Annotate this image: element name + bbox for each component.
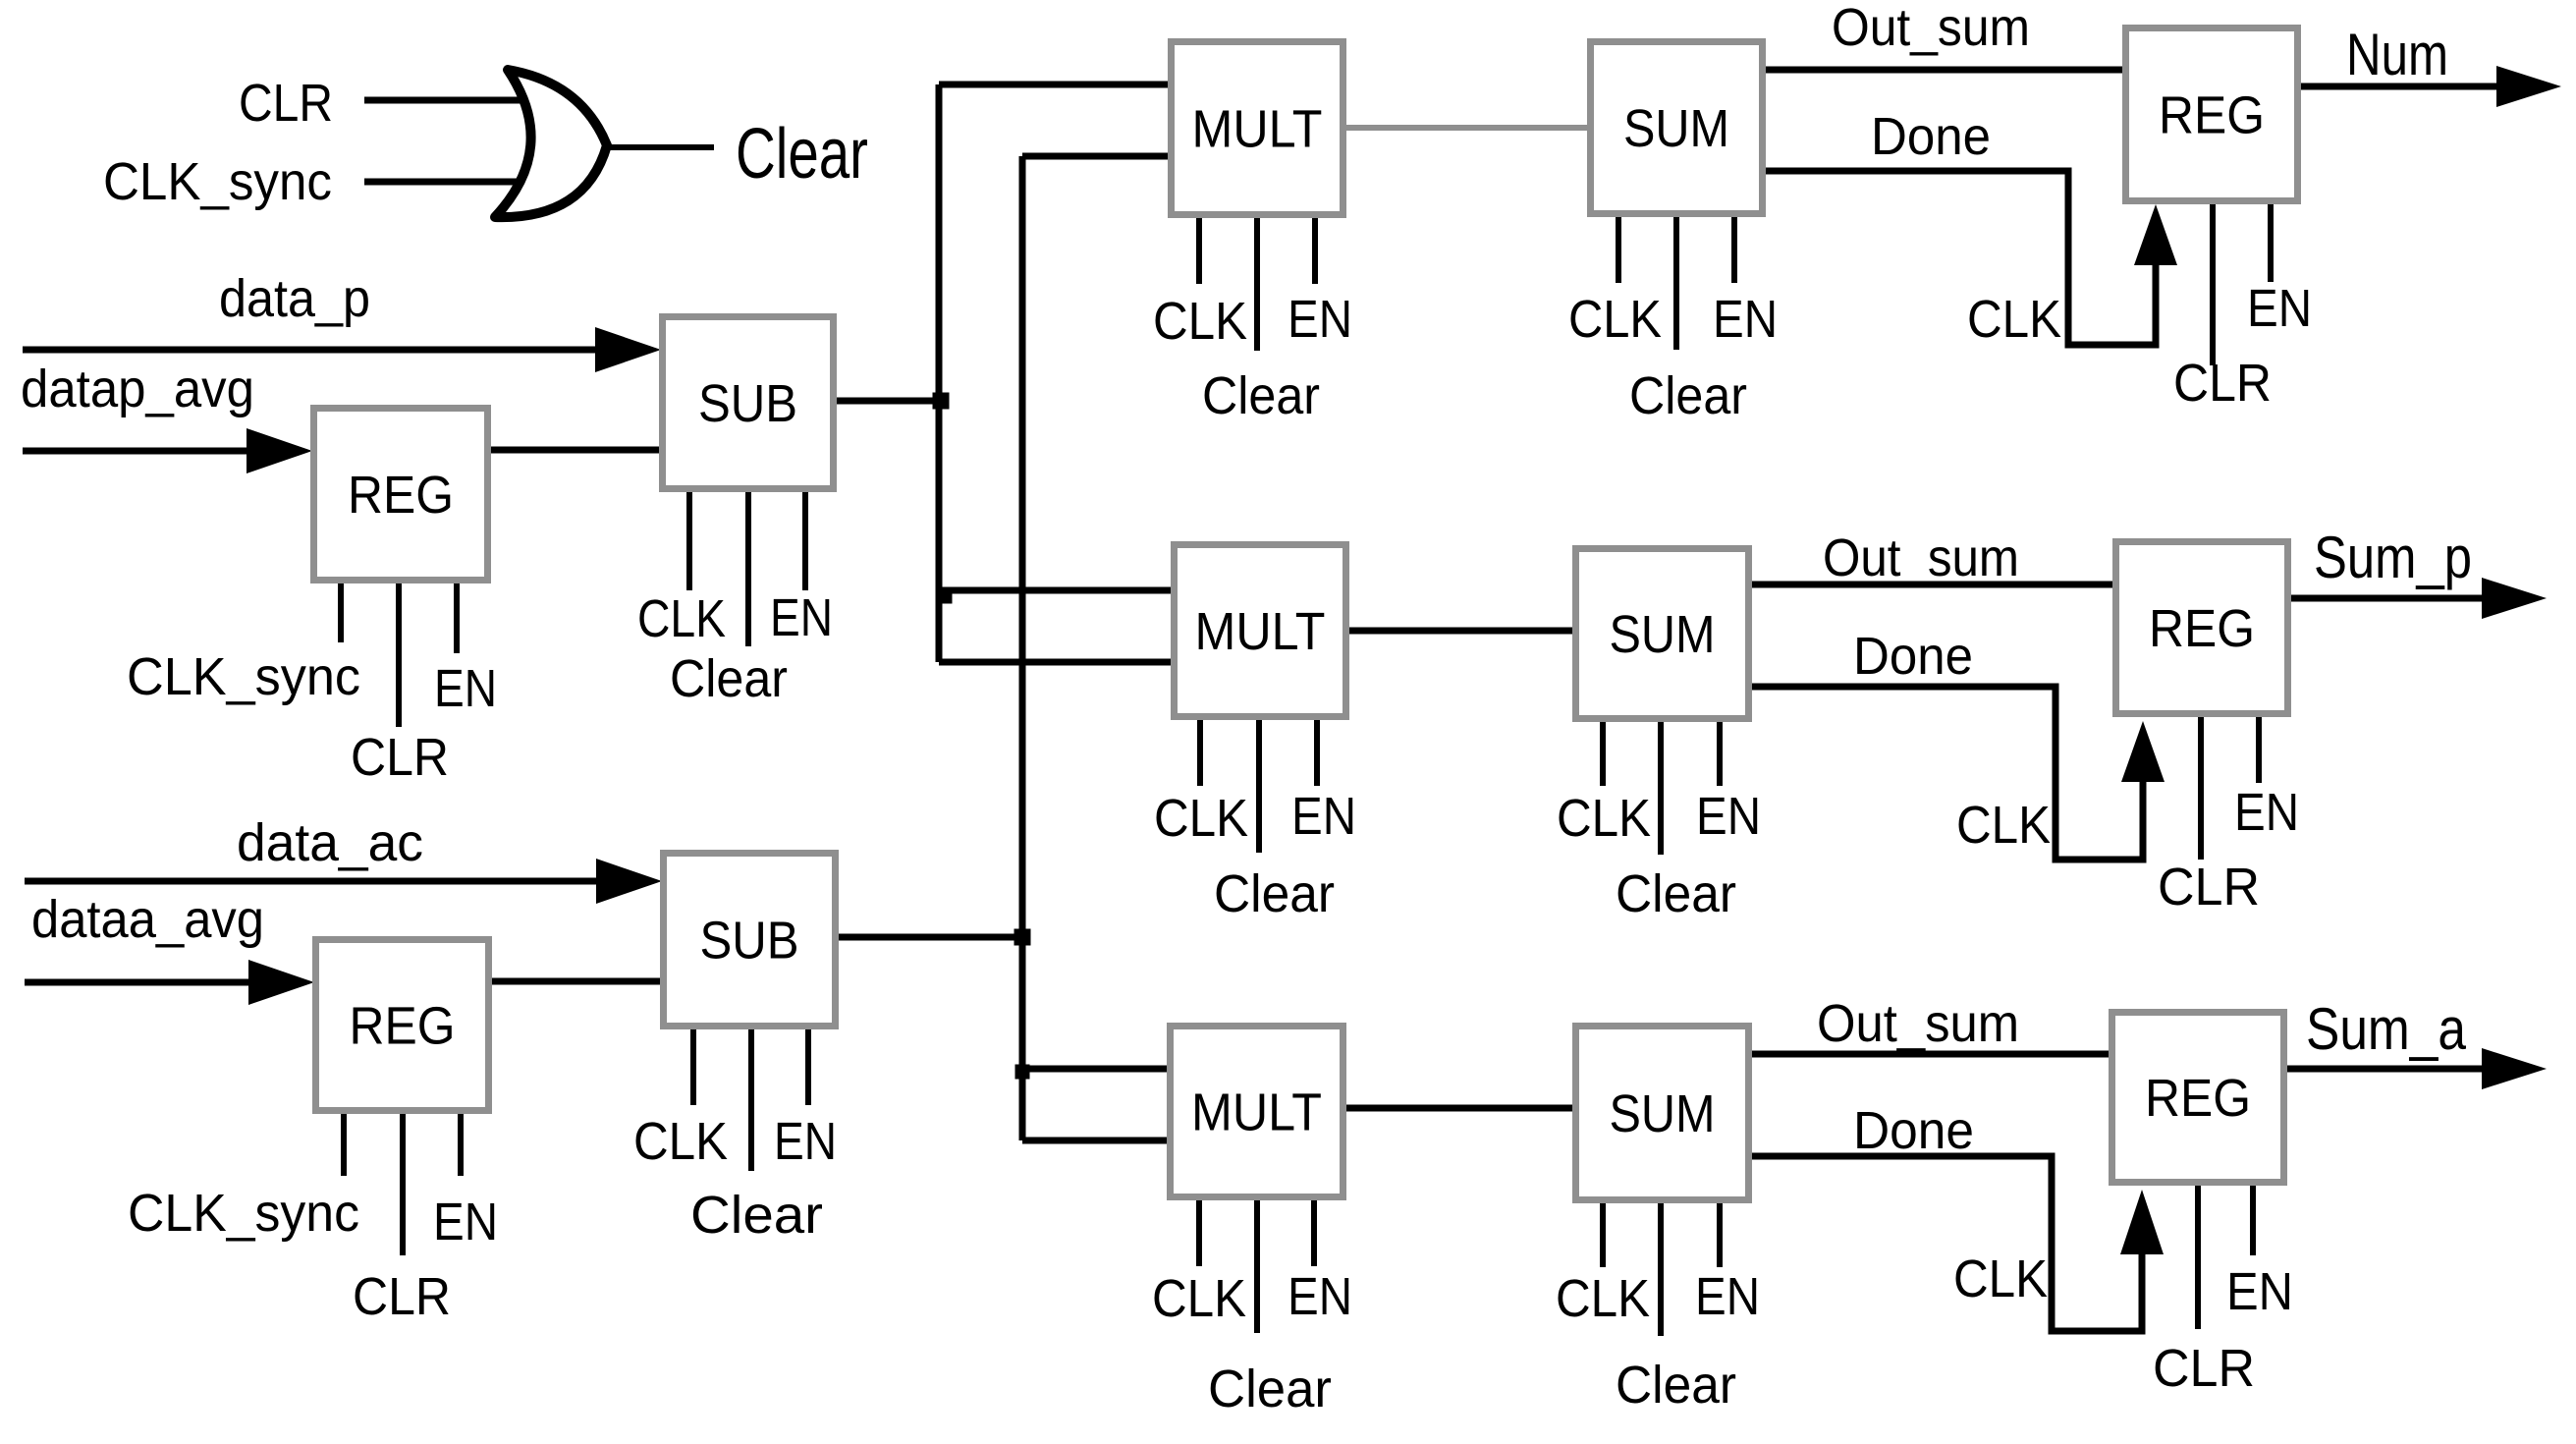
svg-text:Clear: Clear: [690, 1186, 823, 1245]
wire MULT3 to SUM3: [1346, 1105, 1572, 1112]
svg-text:Out_sum: Out_sum: [1823, 528, 2019, 587]
svg-text:REG: REG: [2149, 599, 2255, 658]
OR gate U1: [495, 70, 607, 217]
pin Clear of SUM3: [1658, 1203, 1664, 1336]
svg-text:CLK: CLK: [1956, 796, 2051, 855]
svg-text:CLK_sync: CLK_sync: [128, 1184, 359, 1243]
wire SUB1 output: [837, 398, 939, 405]
pin CLR of REG2: [2198, 717, 2204, 860]
wire Done row3 to REG3 clock: [1752, 1156, 2164, 1331]
pin CLR of REG1: [2210, 204, 2216, 365]
svg-text:datap_avg: datap_avg: [21, 360, 254, 418]
pin EN of SUM1: [1731, 217, 1737, 283]
register REG1 (Num): [2126, 28, 2298, 201]
pin Clear of MULT1: [1254, 218, 1260, 351]
wire Done row2 to REG2 clock: [1752, 687, 2165, 860]
junction SUB2 output node: [1014, 929, 1031, 946]
svg-text:Clear: Clear: [1214, 864, 1335, 923]
wire CLR input to OR gate: [364, 97, 530, 104]
svg-text:CLK_sync: CLK_sync: [103, 152, 332, 211]
pin EN of REG1: [2268, 204, 2274, 282]
pin EN of SUM2: [1717, 722, 1723, 786]
accumulator SUM1: [1591, 42, 1763, 214]
wire REG to SUB2: [492, 978, 660, 985]
svg-text:MULT: MULT: [1192, 100, 1323, 159]
svg-text:CLK: CLK: [633, 1112, 728, 1171]
svg-text:SUM: SUM: [1610, 605, 1716, 664]
pin Clear of MULT3: [1254, 1200, 1260, 1333]
wire Clear output of OR gate: [607, 144, 714, 150]
pin Clear of SUM1: [1673, 217, 1679, 350]
wire Sum_p output: [2291, 578, 2547, 619]
pin CLK of SUM1: [1616, 217, 1621, 283]
wire dataa_avg input: [25, 960, 314, 1005]
svg-text:CLK: CLK: [1153, 292, 1247, 351]
svg-text:Out_sum: Out_sum: [1817, 994, 2019, 1053]
wire bus from SUB1 (vertical): [936, 84, 943, 662]
svg-text:CLK: CLK: [1967, 290, 2061, 349]
multiplier MULT3: [1171, 1027, 1343, 1197]
svg-text:EN: EN: [1696, 787, 1761, 846]
pin EN of left REG2: [458, 1114, 464, 1176]
wire bus2 to MULT3 bottom input: [1022, 1138, 1167, 1144]
pin Clear of SUB1: [745, 492, 751, 646]
pin CLR of REG3: [2195, 1186, 2201, 1329]
svg-text:CLK: CLK: [1568, 290, 1662, 349]
accumulator SUM2: [1576, 549, 1749, 719]
pin EN of MULT1: [1312, 218, 1318, 284]
subtractor SUB2: [664, 854, 836, 1027]
svg-text:Done: Done: [1871, 107, 1991, 166]
pin Clear of MULT2: [1256, 720, 1262, 853]
multiplier MULT2: [1175, 545, 1346, 717]
svg-text:EN: EN: [434, 659, 497, 718]
svg-text:CLR: CLR: [2158, 858, 2260, 916]
svg-text:EN: EN: [2247, 279, 2312, 338]
svg-text:Sum_a: Sum_a: [2306, 996, 2467, 1062]
svg-text:MULT: MULT: [1195, 602, 1326, 661]
pin EN of REG3: [2250, 1186, 2256, 1255]
svg-text:Clear: Clear: [1208, 1360, 1332, 1418]
svg-text:Clear: Clear: [1616, 1356, 1736, 1415]
svg-text:REG: REG: [348, 466, 454, 525]
wire REG to SUB1: [491, 447, 659, 454]
pin CLK of MULT1: [1196, 218, 1202, 284]
pin CLK of SUB1: [686, 492, 692, 590]
pin EN of SUB1: [802, 492, 808, 590]
junction bus1 MULT2 node: [938, 589, 953, 604]
wire bus from SUB2 (vertical): [1019, 156, 1026, 1140]
pin CLK_sync of left REG1: [338, 583, 344, 642]
svg-text:CLR: CLR: [351, 728, 449, 787]
svg-text:Out_sum: Out_sum: [1832, 0, 2030, 57]
svg-text:REG: REG: [2159, 86, 2265, 145]
svg-text:Clear: Clear: [1616, 864, 1736, 923]
wire Done row1 to REG1 clock: [1766, 171, 2177, 345]
svg-text:SUB: SUB: [700, 912, 799, 971]
svg-text:Clear: Clear: [736, 115, 868, 194]
junction SUB1 output node: [933, 393, 950, 410]
svg-text:EN: EN: [1713, 290, 1778, 349]
svg-text:EN: EN: [770, 588, 833, 647]
wire Out_sum row1: [1766, 67, 2122, 74]
svg-text:EN: EN: [1288, 290, 1352, 349]
pin EN of MULT2: [1314, 720, 1320, 786]
svg-text:SUB: SUB: [698, 374, 797, 433]
svg-text:CLR: CLR: [2153, 1339, 2255, 1398]
pin EN of left REG1: [454, 583, 460, 653]
wire Num output: [2301, 66, 2561, 107]
wire Sum_a output: [2287, 1048, 2547, 1089]
pin Clear of SUB2: [748, 1029, 754, 1171]
svg-text:data_p: data_p: [219, 269, 370, 328]
svg-text:CLK_sync: CLK_sync: [127, 647, 360, 706]
pin CLK of SUB2: [690, 1029, 696, 1105]
svg-text:EN: EN: [1288, 1267, 1352, 1326]
pin EN of SUB2: [805, 1029, 811, 1105]
svg-text:EN: EN: [1291, 787, 1356, 846]
pin CLK_sync of left REG2: [341, 1114, 347, 1176]
wire Out_sum row3: [1752, 1051, 2109, 1058]
svg-text:Done: Done: [1853, 627, 1973, 686]
svg-text:EN: EN: [774, 1112, 837, 1171]
multiplier MULT1: [1172, 42, 1343, 215]
wire bus2 to MULT1 bottom input: [1022, 153, 1168, 160]
svg-text:CLK: CLK: [1953, 1250, 2048, 1308]
wire datap_avg input: [23, 428, 312, 473]
wire MULT2 to SUM2: [1349, 628, 1572, 635]
svg-text:dataa_avg: dataa_avg: [31, 890, 264, 949]
svg-text:SUM: SUM: [1610, 1084, 1716, 1143]
register REG2 (Sum_p): [2116, 542, 2288, 714]
svg-text:Done: Done: [1853, 1101, 1974, 1160]
register REG3 (Sum_a): [2112, 1013, 2284, 1183]
register REG (datap_avg): [314, 409, 488, 581]
pin CLK of MULT3: [1196, 1200, 1202, 1266]
pin EN of SUM3: [1717, 1203, 1723, 1267]
svg-text:data_ac: data_ac: [237, 813, 423, 872]
svg-text:EN: EN: [1695, 1267, 1760, 1326]
wire data_ac input: [25, 859, 662, 904]
svg-text:Clear: Clear: [1202, 366, 1320, 425]
svg-text:EN: EN: [2234, 783, 2299, 842]
pin CLR of left REG1: [396, 583, 402, 727]
pin EN of REG2: [2256, 717, 2262, 783]
svg-text:CLR: CLR: [239, 74, 333, 133]
register REG (dataa_avg): [316, 940, 489, 1111]
svg-text:REG: REG: [350, 997, 456, 1056]
wire bus2 to MULT3 top input: [1022, 1066, 1167, 1073]
pin CLK of MULT2: [1197, 720, 1203, 786]
svg-text:Clear: Clear: [1629, 366, 1747, 425]
svg-text:CLR: CLR: [353, 1267, 451, 1326]
svg-text:Sum_p: Sum_p: [2314, 525, 2472, 590]
wire CLK_sync input to OR gate: [364, 179, 524, 186]
wire data_p input: [23, 327, 661, 372]
svg-text:MULT: MULT: [1191, 1083, 1322, 1142]
wire bus1 to MULT1 top input: [939, 82, 1168, 88]
wire bus1 to MULT2 top input: [939, 587, 1171, 594]
svg-text:CLK: CLK: [1152, 1269, 1246, 1328]
svg-text:EN: EN: [2226, 1262, 2293, 1321]
wire Out_sum row2: [1752, 582, 2112, 588]
subtractor SUB1: [663, 317, 834, 489]
pin CLR of left REG2: [400, 1114, 406, 1255]
wire bus1 to MULT2 bottom input: [939, 659, 1171, 666]
svg-text:Clear: Clear: [670, 649, 788, 708]
svg-text:EN: EN: [433, 1193, 498, 1251]
pin CLK of SUM3: [1600, 1203, 1606, 1267]
svg-text:REG: REG: [2145, 1069, 2251, 1128]
pin EN of MULT3: [1311, 1200, 1317, 1266]
svg-text:CLR: CLR: [2173, 354, 2272, 413]
svg-text:SUM: SUM: [1623, 99, 1729, 158]
svg-text:Num: Num: [2346, 22, 2448, 87]
junction bus2 MULT3 node: [1015, 1065, 1030, 1080]
pin Clear of SUM2: [1658, 722, 1664, 855]
svg-text:CLK: CLK: [1154, 789, 1248, 848]
svg-text:CLK: CLK: [637, 589, 726, 648]
wire SUB2 output: [839, 934, 1022, 941]
accumulator SUM3: [1576, 1027, 1749, 1200]
svg-text:CLK: CLK: [1557, 789, 1651, 848]
wire MULT1 to SUM1 (gray): [1346, 125, 1587, 131]
svg-text:CLK: CLK: [1556, 1269, 1650, 1328]
pin CLK of SUM2: [1600, 722, 1606, 786]
